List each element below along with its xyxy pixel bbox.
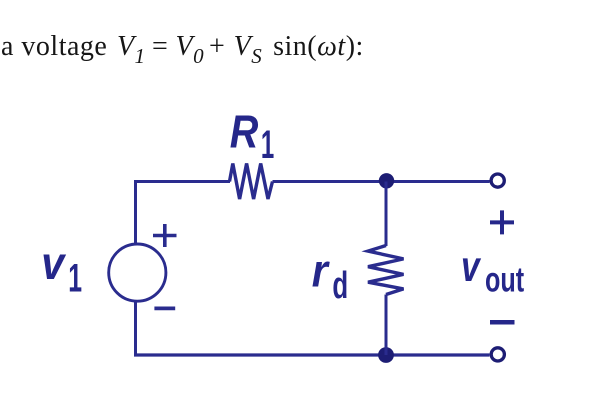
wire: rd branch upper lead from node A xyxy=(385,182,388,247)
voltage source v1 (circle) xyxy=(109,244,166,301)
wire: bottom rail, junction node B to output - terminal xyxy=(386,353,490,356)
svg-text:out: out xyxy=(485,261,524,300)
wire: left vertical from source - terminal to bottom-left corner xyxy=(134,302,137,356)
source - polarity sign xyxy=(154,306,175,310)
svg-text:v: v xyxy=(41,238,67,290)
terminal: vout - (open circle) xyxy=(491,348,504,361)
wire: top rail, R1 to junction node A xyxy=(273,180,387,183)
resistor rd zigzag (vertical) xyxy=(368,246,404,295)
svg-text:R: R xyxy=(230,107,259,158)
wire: bottom rail, left corner to junction node B xyxy=(134,353,386,356)
wire: rd branch lower lead to node B xyxy=(385,295,388,356)
junction node A (top) xyxy=(379,173,394,188)
resistor R1 zigzag xyxy=(230,164,273,200)
wire: top rail, left corner to R1 xyxy=(134,180,230,183)
wire: top rail, junction node A to output + terminal xyxy=(386,180,490,183)
caption text: a voltage V1 = V0 + VS sin(wt): xyxy=(1,33,364,61)
source + polarity sign xyxy=(153,224,177,247)
svg-text:1: 1 xyxy=(261,122,274,167)
svg-text:d: d xyxy=(332,264,348,306)
output + sign xyxy=(490,210,514,234)
svg-text:v: v xyxy=(461,243,482,291)
terminal: vout + (open circle) xyxy=(491,174,504,187)
svg-text:r: r xyxy=(312,246,331,298)
junction node B (bottom) xyxy=(378,347,394,363)
output - sign xyxy=(490,320,515,325)
wire: left vertical from top-left corner down to source + terminal xyxy=(134,182,137,244)
svg-text:1: 1 xyxy=(68,257,82,301)
